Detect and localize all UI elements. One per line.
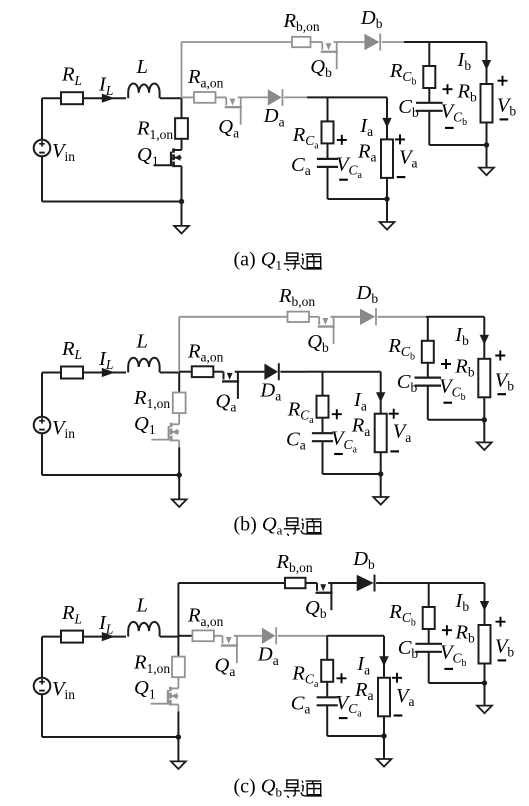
svg-text:(c) Qb: (c) Qb xyxy=(234,776,283,800)
svg-text:(a) Q1: (a) Q1 xyxy=(234,249,283,273)
svg-text:(b) Qa: (b) Qa xyxy=(234,514,283,538)
svg-text:L: L xyxy=(136,331,148,353)
svg-text:L: L xyxy=(136,595,148,617)
svg-text:L: L xyxy=(136,56,148,78)
